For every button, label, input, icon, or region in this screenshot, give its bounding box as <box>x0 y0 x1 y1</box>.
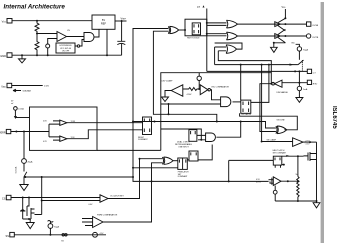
svg-text:OSC COMPARATOR: OSC COMPARATOR <box>211 85 229 88</box>
svg-text:SET DOMINANT: SET DOMINANT <box>273 152 287 155</box>
svg-text:(0.9V): (0.9V) <box>256 182 261 184</box>
svg-text:70µA: 70µA <box>303 48 309 51</box>
svg-text:HIGH TOGGLE: HIGH TOGGLE <box>187 38 200 40</box>
svg-text:0.25mA: 0.25mA <box>15 166 18 173</box>
svg-text:0.1mA: 0.1mA <box>18 108 24 111</box>
svg-text:REF: REF <box>101 22 107 26</box>
svg-text:70µA: 70µA <box>54 225 60 228</box>
svg-text:VREF: VREF <box>121 16 127 20</box>
svg-text:1mA: 1mA <box>303 88 308 91</box>
svg-text:4.2V: 4.2V <box>43 141 47 143</box>
svg-text:OC LATCH SET: OC LATCH SET <box>110 195 124 198</box>
svg-text:−2.5V: −2.5V <box>305 143 311 145</box>
svg-text:Internal Architecture: Internal Architecture <box>4 4 66 11</box>
svg-text:VERR: VERR <box>0 132 6 134</box>
svg-text:DOMINANT: DOMINANT <box>178 175 188 178</box>
svg-text:VDD: VDD <box>291 43 295 45</box>
svg-text:CS: CS <box>2 197 6 201</box>
svg-text:SS: SS <box>61 241 64 243</box>
svg-text:ref: ref <box>11 103 14 105</box>
svg-text:0.6V: 0.6V <box>89 204 94 206</box>
svg-text:SS CLAMP: SS CLAMP <box>267 138 277 141</box>
svg-text:OUTB: OUTB <box>312 37 319 39</box>
svg-text:UV 1.30/1.00: UV 1.30/1.00 <box>60 48 71 50</box>
svg-text:ISL6745: ISL6745 <box>331 106 337 129</box>
svg-text:VDD: VDD <box>2 20 7 24</box>
svg-text:CT: CT <box>313 72 317 74</box>
svg-text:2.50V: 2.50V <box>44 86 50 88</box>
svg-text:UV: UV <box>67 30 71 32</box>
svg-text:ONE SHOT: ONE SHOT <box>178 146 189 148</box>
svg-text:4.50V: 4.50V <box>187 94 193 96</box>
svg-text:VADJ: VADJ <box>1 85 6 88</box>
svg-text:HYSTERESIS: HYSTERESIS <box>60 45 73 47</box>
svg-text:OUTA: OUTA <box>312 24 318 27</box>
svg-text:DOMINANT: DOMINANT <box>138 138 148 141</box>
svg-text:GND: GND <box>0 54 6 58</box>
svg-text:VDD: VDD <box>282 7 287 9</box>
svg-text:5k: 5k <box>296 174 298 176</box>
svg-text:5mA MAX: 5mA MAX <box>23 90 32 93</box>
svg-text:DISCHARGE: DISCHARGE <box>277 91 289 94</box>
svg-text:0.8V CLAMP: 0.8V CLAMP <box>162 80 174 83</box>
svg-text:20µA: 20µA <box>28 160 34 163</box>
svg-text:0.6V: 0.6V <box>43 121 47 123</box>
svg-text:PWM COMPARATOR: PWM COMPARATOR <box>97 213 118 216</box>
svg-text:CT: CT <box>197 7 201 9</box>
svg-text:ON OFF: ON OFF <box>62 51 70 53</box>
svg-text:SS: SS <box>6 234 10 238</box>
svg-text:RTD: RTD <box>313 83 318 85</box>
svg-text:SS DONE: SS DONE <box>277 120 286 122</box>
svg-text:5V: 5V <box>102 18 105 22</box>
